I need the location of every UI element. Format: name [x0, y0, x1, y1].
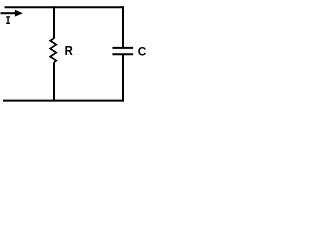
wire right lower (capacitor to bottom corner)	[122, 55, 124, 102]
wire middle branch lower (resistor to bottom wire)	[53, 62, 55, 101]
svg-text:R: R	[65, 43, 73, 58]
wire right upper (top corner to capacitor)	[122, 6, 124, 47]
label I (serif capital drawn as strokes)	[6, 16, 10, 24]
current arrow shaft	[1, 12, 17, 14]
wire middle branch upper (top wire to resistor)	[53, 6, 55, 38]
capacitor C1 bottom plate	[112, 53, 133, 55]
resistor R1 zigzag	[50, 38, 56, 62]
capacitor C1 top plate	[112, 47, 133, 49]
wire top	[5, 6, 125, 8]
svg-text:C: C	[138, 45, 147, 59]
wire bottom	[3, 100, 124, 102]
current arrow head	[15, 10, 23, 17]
